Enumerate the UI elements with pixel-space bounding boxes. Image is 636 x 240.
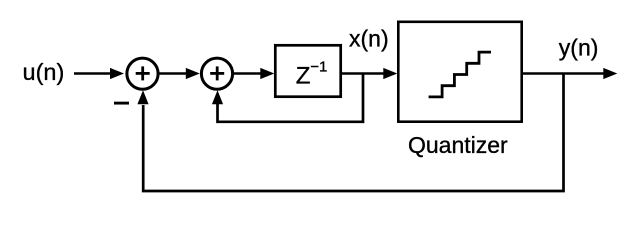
minus sign at S1 lower-left — [114, 102, 129, 105]
svg-text:y(n): y(n) — [559, 34, 599, 60]
wire delay block to quantizer with arrowhead — [342, 68, 397, 79]
outer feedback wire: tap at output down, left, up into S1 — [137, 74, 563, 192]
svg-text:−1: −1 — [310, 59, 327, 76]
wire u(n) to summer S1 with arrowhead — [74, 68, 124, 79]
output wire quantizer to y(n) with arrowhead — [522, 68, 617, 79]
quantizer staircase symbol — [429, 52, 491, 97]
svg-text:Quantizer: Quantizer — [408, 132, 508, 158]
summing junction S1 — [127, 58, 158, 89]
svg-text:Z: Z — [296, 62, 311, 89]
wire S1 to summer S2 with arrowhead — [159, 68, 200, 79]
quantizer box — [398, 22, 521, 122]
inner feedback wire: tap after delay block down, left, up into S2 — [212, 74, 363, 122]
delay block Z^-1 box — [275, 45, 340, 96]
svg-text:x(n): x(n) — [349, 25, 389, 51]
delay block label Z^-1 — [296, 59, 328, 90]
wire S2 to delay block with arrowhead — [234, 68, 274, 79]
summing junction S2 — [201, 58, 232, 89]
svg-text:u(n): u(n) — [23, 59, 65, 85]
